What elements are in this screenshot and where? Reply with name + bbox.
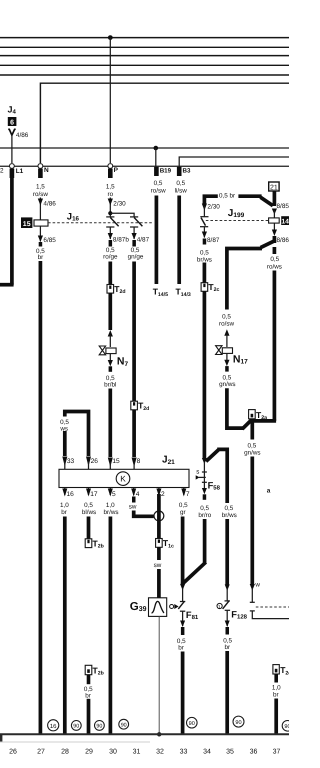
indicator K inside J21	[116, 472, 130, 486]
wire label 0,5 gn/ge	[128, 247, 144, 261]
wire bus line 6 with corner down at x=40	[40, 83, 289, 163]
svg-text:ro/ge: ro/ge	[103, 254, 118, 261]
svg-text:26: 26	[9, 749, 17, 756]
wire jumper loop ws pins 33-26	[62, 412, 98, 470]
wire label 1,5 ro under P	[106, 183, 115, 197]
svg-text:s: s	[196, 468, 199, 475]
svg-text:8: 8	[137, 458, 141, 465]
wire N17 output to T2a	[227, 388, 252, 429]
wire ro/ws run down to T2a	[253, 247, 276, 421]
svg-text:ro/ws: ro/ws	[267, 264, 282, 271]
wire T2d to valve N7 with up arrow	[108, 293, 113, 347]
svg-text:gn/ws: gn/ws	[244, 449, 260, 456]
svg-text:29: 29	[85, 749, 93, 756]
wire label 1,5 ro/sw under N	[33, 183, 48, 197]
wire w switch contact to page edge	[250, 588, 289, 619]
svg-text:0,5 br: 0,5 br	[219, 192, 235, 199]
internal connection black box 14	[281, 216, 289, 225]
svg-text:br: br	[85, 693, 91, 700]
wire contact output arrow 8/87	[202, 227, 220, 245]
svg-text:90: 90	[73, 724, 79, 730]
wire arrow 2/30 into J199 contact	[202, 203, 220, 216]
svg-text:90: 90	[189, 721, 195, 727]
svg-text:br/ws: br/ws	[222, 512, 237, 519]
node junction on upper rail feeding B19	[154, 146, 159, 151]
wire br/ws run to connector T2c	[203, 263, 207, 283]
track number 35	[226, 749, 234, 756]
wire ground run track 35	[225, 651, 229, 734]
wire label 0,5 br/bl	[104, 375, 116, 389]
svg-text:br: br	[61, 509, 67, 516]
svg-text:7: 7	[186, 491, 190, 498]
svg-text:w: w	[254, 582, 260, 589]
svg-text:0,5: 0,5	[200, 505, 209, 512]
svg-text:br/ws: br/ws	[197, 256, 212, 263]
svg-text:gr: gr	[180, 509, 186, 516]
J21 pin 2	[156, 488, 165, 499]
svg-text:gn/ge: gn/ge	[128, 254, 144, 261]
svg-text:37: 37	[273, 749, 281, 756]
wire T1c to G39 with sw label break	[154, 547, 162, 598]
svg-text:0,5: 0,5	[176, 180, 185, 187]
ground location circle 90 track 28	[71, 721, 81, 731]
J21 pin 16	[60, 488, 74, 516]
svg-text:ro/sw: ro/sw	[219, 320, 234, 327]
wire L1 brown exit to page left	[0, 176, 14, 285]
svg-text:16: 16	[50, 723, 57, 730]
wire label 0,5 gn/ws under T2a	[244, 442, 260, 456]
relay J16 label	[67, 212, 80, 223]
svg-text:B3: B3	[183, 167, 191, 174]
wire label 1,0 br track 37	[272, 685, 281, 699]
wire N thin segment into relay coil with arrow 4/86	[38, 198, 56, 221]
svg-text:P: P	[114, 167, 119, 174]
wire label 0,5 gn/ws under N17	[219, 374, 235, 388]
ground location circle 90 track 30	[119, 719, 129, 729]
terminal B3	[177, 167, 191, 176]
wire label 0,5 br under F128	[223, 637, 232, 651]
svg-text:4/86: 4/86	[16, 132, 29, 139]
svg-text:0,5: 0,5	[179, 502, 188, 509]
track number 27	[37, 749, 45, 756]
svg-text:34: 34	[203, 749, 211, 756]
wire label 0,5 li/sw under B3	[175, 180, 188, 194]
svg-text:90: 90	[235, 720, 241, 726]
ground location circle 90 track 37	[282, 721, 293, 732]
svg-text:br: br	[224, 644, 230, 651]
wire label 0,5 ro/sw under B19	[151, 180, 166, 194]
ground location circle 90 track 29	[95, 721, 105, 731]
wire T2c long run down to F58	[203, 291, 207, 458]
svg-text:1: 1	[218, 604, 221, 610]
svg-text:8/87b: 8/87b	[113, 237, 129, 244]
svg-text:1,0: 1,0	[60, 502, 69, 509]
svg-text:0,5: 0,5	[84, 502, 93, 509]
svg-text:32: 32	[156, 749, 164, 756]
svg-text:1,0: 1,0	[106, 502, 115, 509]
wire relay plate upper rail	[0, 147, 289, 149]
wire ground run track 37	[274, 699, 278, 735]
svg-text:K: K	[120, 475, 126, 484]
wire pin7 gr run down to F81 junction	[179, 488, 190, 585]
svg-text:6: 6	[10, 120, 14, 127]
svg-text:33: 33	[180, 749, 188, 756]
terminal B19	[154, 167, 172, 176]
wire stub under T2b lower	[87, 675, 91, 685]
relay J199 contact	[200, 217, 209, 227]
wire N coil output arrow 6/85	[38, 226, 56, 244]
switch F128	[217, 601, 248, 635]
svg-text:5: 5	[112, 491, 116, 498]
connector T2b lower	[85, 665, 104, 676]
wire label 0,5 br/ro	[198, 505, 211, 519]
relay J199 terminal 8/85 and coil	[269, 203, 290, 244]
wire B3 run to connector T14/3	[176, 196, 191, 298]
wire from box 21 down to 8/85 node	[273, 191, 277, 206]
wire bus line 1	[0, 37, 289, 39]
ground location circle 90 track 35	[233, 716, 244, 727]
svg-text:2/30: 2/30	[207, 203, 220, 210]
wire P thin segment with arrow 2/30	[108, 198, 126, 217]
wire ground run track 29	[87, 699, 91, 735]
svg-text:br: br	[273, 692, 279, 699]
svg-text:ro/sw: ro/sw	[151, 188, 166, 195]
wire ground run track 27	[39, 261, 43, 734]
relay J4 position box 6	[8, 117, 17, 127]
svg-text:8/85: 8/85	[277, 203, 290, 210]
svg-text:B19: B19	[160, 167, 172, 174]
wire T2d to J21 pin 8	[132, 410, 141, 470]
svg-text:4: 4	[136, 491, 140, 498]
svg-text:17: 17	[90, 491, 98, 498]
svg-text:28: 28	[61, 749, 69, 756]
svg-text:sw: sw	[129, 504, 137, 511]
connector T2b upper	[85, 538, 104, 549]
wire vertical drop from bus 1 to terminal P	[109, 38, 111, 163]
wire drop from junction to terminal B19	[155, 148, 157, 167]
wire stub below 6/85	[39, 242, 43, 247]
wire label 0,5 br/ws under 8/87	[197, 250, 212, 264]
svg-text:bl/ws: bl/ws	[82, 509, 96, 516]
track number 31	[133, 749, 141, 756]
svg-text:N: N	[44, 167, 49, 174]
wire br/ro run and slant to F81	[182, 519, 206, 585]
switch F58	[196, 458, 221, 500]
valve N7	[99, 346, 128, 372]
svg-text:0,5: 0,5	[225, 505, 234, 512]
svg-text:6/85: 6/85	[43, 237, 56, 244]
relay J199 plate box 21	[269, 182, 279, 191]
track number 32	[156, 749, 164, 756]
wire label 0,5 ws on jumper	[59, 417, 71, 433]
svg-text:0,5: 0,5	[270, 256, 279, 263]
wire relay plate lower rail	[0, 165, 289, 167]
svg-text:15: 15	[112, 458, 120, 465]
svg-text:2/30: 2/30	[113, 200, 126, 207]
svg-text:8/86: 8/86	[277, 237, 290, 244]
svg-text:90: 90	[121, 722, 127, 728]
ground location circle 90 track 33	[187, 717, 198, 728]
svg-text:2: 2	[0, 168, 4, 175]
track number 36	[250, 749, 258, 756]
svg-text:15: 15	[23, 221, 31, 228]
terminal P	[108, 164, 119, 178]
track number 29	[85, 749, 93, 756]
track number 37	[273, 749, 281, 756]
svg-text:br/ro: br/ro	[198, 512, 211, 519]
svg-text:1,0: 1,0	[272, 685, 281, 692]
svg-text:sw: sw	[154, 562, 162, 569]
wire 0,5 br feed to J199	[204, 191, 273, 206]
connector T2e bottom right	[273, 665, 291, 677]
wire label 0,5 br track 27	[36, 248, 45, 261]
svg-text:0,5: 0,5	[248, 442, 257, 449]
wire label 0,5 ro/ge	[103, 247, 118, 261]
relay J16 actuation dashed link	[48, 222, 152, 224]
wire bus line 2	[0, 46, 289, 48]
svg-text:4/86: 4/86	[43, 200, 56, 207]
svg-text:ro: ro	[107, 191, 113, 198]
svg-text:br: br	[38, 254, 44, 261]
dashed link off page right	[256, 606, 289, 608]
wire gn/ws long run w	[250, 419, 261, 591]
svg-text:33: 33	[67, 458, 75, 465]
connector T2a	[249, 410, 267, 421]
svg-text:90: 90	[96, 724, 102, 730]
J21 pin 5	[103, 488, 118, 516]
track number 33	[180, 749, 188, 756]
track number 30	[109, 749, 117, 756]
track number 34	[203, 749, 211, 756]
connector T1c	[156, 538, 174, 549]
svg-text:35: 35	[226, 749, 234, 756]
svg-text:L1: L1	[16, 168, 24, 175]
wire contact1 output arrow 8/87b	[108, 227, 130, 247]
ground location circle 16	[48, 720, 59, 731]
control unit J21 box	[59, 455, 189, 488]
wire ro/ge run to connector T2d pin 1	[108, 262, 112, 285]
wire pin17 down to connector T2b	[87, 517, 91, 539]
wire stub under T2e	[274, 674, 278, 683]
svg-text:90: 90	[284, 724, 289, 730]
svg-text:26: 26	[91, 458, 99, 465]
wire arrow into F81	[180, 584, 185, 602]
wire arrow into valve N17	[224, 329, 229, 347]
wire contact2 output arrow 4/87	[132, 227, 150, 247]
svg-text:li/sw: li/sw	[175, 188, 188, 195]
svg-text:a: a	[267, 488, 271, 495]
node junction on bus line 1	[108, 35, 113, 40]
wire pin2 down to connector T1c	[157, 494, 161, 539]
wire label 0,5 br under F81	[177, 638, 186, 652]
svg-text:0,5: 0,5	[154, 180, 163, 187]
node junction feeding both J16 contacts	[108, 211, 134, 216]
wire branch from F58 node to br/ws column	[206, 449, 227, 503]
svg-text:1,5: 1,5	[36, 183, 45, 190]
wire br/ws run to F128	[225, 519, 230, 601]
wire 8/86 node split ro/sw branch to N17	[227, 236, 276, 310]
wire N7 to J21 pin 15	[108, 389, 120, 470]
terminal N	[38, 164, 49, 178]
J21 pin 17	[82, 488, 98, 516]
svg-text:gn/ws: gn/ws	[219, 381, 235, 388]
relay J4 terminal fork 4/86	[8, 129, 29, 163]
wire label 0,5 ro/sw to valve N17	[219, 314, 234, 328]
svg-text:14: 14	[281, 219, 289, 226]
svg-text:16: 16	[67, 491, 75, 498]
track number 28	[61, 749, 69, 756]
terminal L1	[10, 164, 24, 178]
wire label 0,5 br track 29	[84, 686, 93, 700]
relay J4 label	[8, 105, 17, 116]
wire ground run track 33	[181, 652, 185, 735]
connector T2d second	[131, 401, 150, 412]
wire G39 ground lead to bus	[157, 616, 161, 736]
relay J199 dashed actuation link	[206, 220, 269, 222]
wire bus line 4	[0, 64, 289, 66]
relay J16 terminal 15 feed box	[21, 217, 32, 228]
wire bus line 5	[0, 74, 289, 76]
wire ground run track 28	[63, 517, 67, 735]
svg-text:30: 30	[109, 749, 117, 756]
svg-text:ws: ws	[59, 426, 68, 433]
svg-text:1,5: 1,5	[106, 183, 115, 190]
terminal label 2 at left edge	[0, 168, 4, 175]
svg-text:4/87: 4/87	[137, 237, 150, 244]
lambda probe G39	[130, 598, 167, 617]
svg-text:br/bl: br/bl	[104, 382, 116, 389]
track number 26	[9, 749, 17, 756]
wire gn/ge run to connector T2d pin 2	[132, 262, 136, 402]
relay J199 label	[228, 208, 245, 219]
ground bus rail	[0, 734, 289, 742]
wire label 0,5 br/ws	[222, 505, 237, 519]
switch F81	[170, 601, 199, 635]
svg-text:br/ws: br/ws	[103, 509, 118, 516]
connector T2c	[201, 282, 219, 293]
small mark a	[267, 488, 271, 495]
svg-text:27: 27	[37, 749, 45, 756]
svg-text:ro/sw: ro/sw	[33, 191, 48, 198]
svg-text:2: 2	[161, 491, 165, 498]
relay J16 contact 2	[130, 217, 142, 227]
svg-text:31: 31	[133, 749, 141, 756]
valve N17	[216, 346, 249, 372]
relay J16 coil	[34, 220, 48, 226]
relay J16 contact 1	[106, 217, 118, 227]
wire bus line 3	[0, 55, 289, 57]
wire label 0,5 ro/ws	[267, 256, 282, 270]
wire ground run track 30	[109, 517, 113, 735]
svg-text:21: 21	[270, 184, 278, 191]
wire sub rail feeding B3	[179, 157, 289, 167]
svg-text:36: 36	[250, 749, 258, 756]
connector T2d first	[107, 284, 126, 295]
wire B19 run to connector T14/5	[153, 196, 168, 298]
svg-text:br: br	[178, 645, 184, 652]
svg-text:8/87: 8/87	[207, 237, 220, 244]
shield junction circle on pin2 wire	[154, 511, 164, 521]
J21 pin 4 shield lead sw	[129, 488, 154, 517]
